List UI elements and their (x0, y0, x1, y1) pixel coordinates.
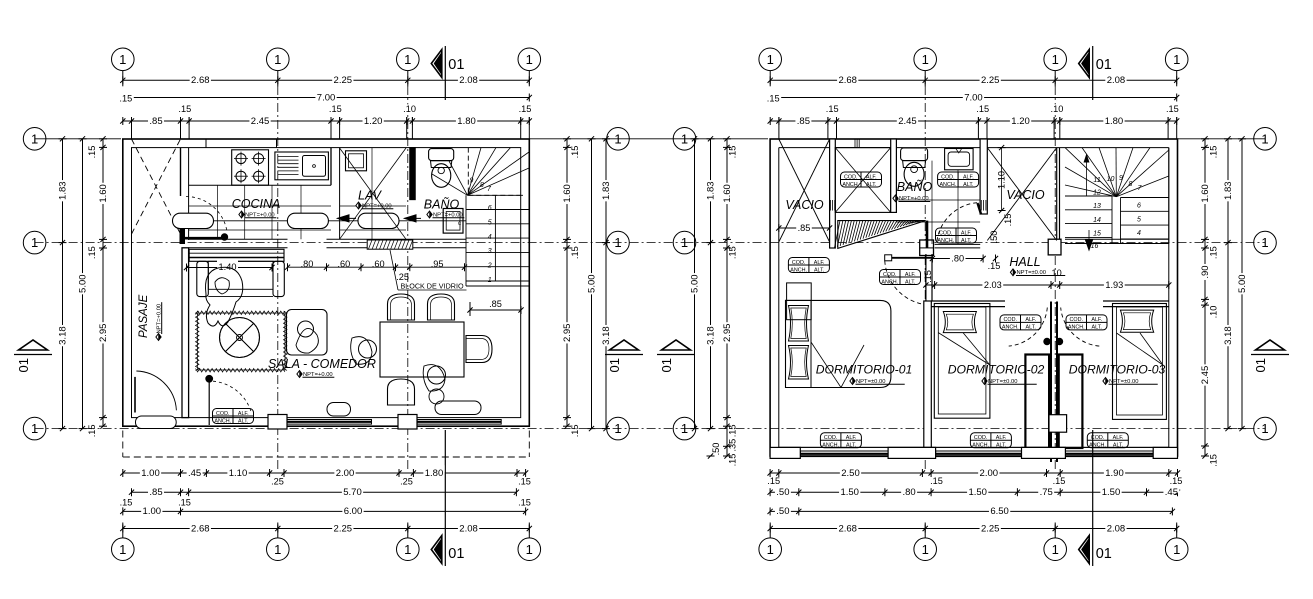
bottom dim chain 1.00/6.00 left plan (123, 510, 526, 512)
lav washer left plan (346, 151, 367, 171)
svg-text:HALL: HALL (1009, 255, 1040, 269)
svg-text:.50: .50 (776, 487, 789, 498)
svg-text:1.83: 1.83 (57, 181, 68, 200)
toilet right plan (901, 148, 928, 161)
bench bottom right left plan (435, 401, 481, 415)
bottom wall window sala 1 left plan (286, 420, 372, 425)
svg-text:COD.: COD. (844, 174, 857, 180)
stair left edge dashed left plan (467, 148, 469, 196)
west dimension 5.00 right plan (694, 139, 696, 429)
svg-text:ALF.: ALF. (963, 174, 974, 180)
top dimension row 2.68/2.25/2.08 right plan (770, 79, 1176, 81)
svg-text:1: 1 (488, 277, 492, 284)
svg-text:.50: .50 (989, 231, 999, 244)
svg-text:1.90: 1.90 (1105, 468, 1124, 479)
grid marker circles top left plan (112, 48, 135, 71)
grid column centerlines right plan (924, 86, 926, 470)
svg-text:.25: .25 (396, 272, 409, 282)
outer walls left plan (123, 139, 530, 426)
svg-text:COD.: COD. (941, 174, 954, 180)
svg-text:.15: .15 (767, 94, 780, 104)
svg-text:.85: .85 (149, 487, 162, 498)
dim .80 banio door right plan (932, 258, 983, 260)
east dimension 1.83/3.18 left plan (605, 139, 607, 429)
dorm03 door arc right plan (1056, 338, 1062, 344)
svg-text:3.18: 3.18 (57, 326, 68, 345)
svg-text:1: 1 (614, 235, 621, 250)
svg-text:1: 1 (119, 52, 126, 67)
svg-text:VACIO: VACIO (785, 198, 823, 212)
svg-text:1.10: 1.10 (229, 468, 248, 479)
flow arrow lav left plan (338, 215, 350, 222)
svg-text:1: 1 (1052, 52, 1059, 67)
cod-alf banio door right plan (936, 228, 977, 243)
svg-text:2.68: 2.68 (838, 523, 857, 534)
svg-text:.45: .45 (1165, 487, 1178, 498)
svg-text:6.50: 6.50 (990, 506, 1009, 517)
side grid circles right plan west (673, 128, 696, 151)
svg-text:.35: .35 (728, 439, 738, 452)
svg-text:1: 1 (681, 131, 688, 146)
kitchen sink left plan (275, 152, 329, 180)
rug left plan (198, 313, 286, 370)
svg-text:ANCH.: ANCH. (842, 182, 859, 188)
wall lav-banio left plan (410, 148, 415, 200)
cod-alf dorm02 door right plan (1000, 315, 1041, 330)
vacio 1 X right plan (779, 139, 830, 242)
svg-text:1.60: 1.60 (722, 184, 733, 203)
lav diagonal 2 left plan (340, 148, 406, 239)
svg-text:.15: .15 (518, 477, 531, 487)
svg-text:BAÑO: BAÑO (424, 198, 460, 212)
wall vacio1-closet right plan (830, 139, 836, 248)
svg-text:.15: .15 (1003, 214, 1013, 227)
svg-text:1: 1 (1261, 421, 1268, 436)
svg-text:3: 3 (488, 248, 492, 255)
svg-text:8: 8 (480, 182, 484, 189)
door header capsule 2 left plan (287, 213, 328, 228)
vacio 2 X right plan (987, 148, 1056, 241)
svg-text:.25: .25 (271, 477, 284, 487)
west dimension 1.83/3.18 left plan (62, 139, 64, 429)
svg-text:.15: .15 (728, 146, 738, 159)
svg-text:.50: .50 (776, 506, 789, 517)
svg-text:1: 1 (404, 542, 411, 557)
svg-text:ALF.: ALF. (1025, 317, 1036, 323)
svg-text:COD.: COD. (824, 435, 837, 441)
svg-text:1.00: 1.00 (143, 506, 162, 517)
stair treads right plan (1065, 195, 1112, 197)
window pier left 1 (268, 415, 287, 430)
east dimension chain right plan (1204, 139, 1206, 456)
svg-text:.90: .90 (1200, 265, 1211, 278)
wall pier kitchen door left plan (180, 230, 185, 244)
svg-text:ALF.: ALF. (961, 230, 972, 236)
outer walls right plan (770, 139, 1177, 456)
svg-text:2.68: 2.68 (191, 75, 210, 86)
bottom dim chain .50-1.50 right plan (770, 491, 1177, 493)
svg-text:.15: .15 (519, 104, 532, 114)
dining chairs left plan (388, 294, 415, 320)
svg-text:.80: .80 (301, 259, 314, 269)
svg-text:ALF.: ALF. (1113, 435, 1124, 441)
svg-text:5.00: 5.00 (586, 274, 597, 293)
section cut marker 01 bottom right plan (1079, 536, 1090, 564)
window pier left 2 (398, 415, 417, 430)
svg-text:.15: .15 (178, 104, 191, 114)
svg-text:.15: .15 (930, 476, 943, 486)
svg-text:.85: .85 (149, 116, 162, 127)
svg-text:2.00: 2.00 (336, 468, 355, 479)
svg-text:01: 01 (1096, 546, 1112, 562)
svg-text:1: 1 (31, 235, 38, 250)
svg-text:.10: .10 (403, 104, 416, 114)
grid row line A right plan (685, 138, 769, 140)
banio door arc right plan (937, 203, 977, 243)
svg-text:01: 01 (1253, 358, 1268, 372)
closet dorm02 right plan (1025, 355, 1049, 449)
svg-text:COD.: COD. (939, 230, 952, 236)
grid row line D right plan (685, 428, 1266, 430)
svg-text:6: 6 (1137, 203, 1141, 210)
svg-text:COD.: COD. (1091, 435, 1104, 441)
hall dim 2.03/1.93 right plan (926, 284, 1169, 286)
svg-text:.15: .15 (1209, 246, 1219, 259)
svg-text:1: 1 (119, 542, 126, 557)
svg-text:1: 1 (1261, 235, 1268, 250)
closet dorm03 right plan (1059, 355, 1083, 449)
cod-alf bedrooms bottom right plan (820, 433, 861, 448)
section arrow 01 west right plan (662, 340, 691, 350)
svg-text:1: 1 (31, 421, 38, 436)
stair bottom landing left plan (466, 285, 529, 287)
svg-text:5: 5 (488, 220, 492, 227)
round chair with fan left plan (220, 318, 260, 358)
dorm03 top wall right plan (1103, 300, 1169, 302)
stair treads left plan (466, 209, 529, 211)
svg-text:1: 1 (767, 542, 774, 557)
svg-text:1.60: 1.60 (98, 184, 109, 203)
svg-text:.75: .75 (1040, 487, 1053, 498)
svg-text:1.50: 1.50 (968, 487, 987, 498)
svg-text:1: 1 (404, 52, 411, 67)
bottom wall window sala 2 left plan (417, 420, 501, 425)
grid row line A left plan (35, 138, 121, 140)
section cut marker 01 top left plan (431, 50, 442, 78)
sala door pivot left plan (206, 375, 213, 382)
svg-text:1.20: 1.20 (1011, 116, 1030, 127)
svg-text:6: 6 (488, 205, 492, 212)
east dimension chain left plan (566, 139, 568, 426)
svg-text:.25: .25 (400, 477, 413, 487)
appliance line left plan (181, 220, 467, 222)
bed dorm-01 right plan (787, 283, 812, 320)
svg-text:1: 1 (526, 52, 533, 67)
mid wall + hall piers right plan (920, 240, 934, 256)
stair down arrow right plan (1088, 230, 1090, 250)
svg-text:.15: .15 (988, 261, 1001, 271)
stair fan lines left plan (468, 148, 482, 196)
wall stub dorm01-02 right plan (925, 254, 927, 301)
wall cocina-lav left plan (330, 148, 332, 186)
top dimension chain .85/2.45/1.20/1.80 right plan (770, 120, 1176, 122)
svg-text:.10: .10 (1051, 104, 1064, 114)
cod-alf dorm01 door right plan (880, 270, 921, 285)
svg-text:1.80: 1.80 (457, 116, 476, 127)
svg-text:.15: .15 (1209, 454, 1219, 467)
svg-text:.15: .15 (1053, 476, 1066, 486)
svg-text:COD.: COD. (216, 411, 229, 417)
bottom window dorm02 right plan (936, 451, 1022, 457)
svg-text:ANCH.: ANCH. (1002, 325, 1019, 331)
svg-text:1: 1 (31, 131, 38, 146)
svg-text:.10: .10 (1049, 268, 1062, 278)
wall banio-vacio2 right plan (980, 139, 987, 214)
diners left plan (359, 340, 377, 358)
grid row centerline B right plan (685, 242, 1266, 244)
svg-text:ALF.: ALF. (866, 174, 877, 180)
svg-text:1.00: 1.00 (141, 468, 160, 479)
svg-text:7.00: 7.00 (964, 92, 983, 103)
svg-text:VACIO: VACIO (1006, 188, 1044, 202)
svg-text:3.18: 3.18 (705, 326, 716, 345)
svg-text:5.00: 5.00 (689, 274, 700, 293)
svg-text:01: 01 (659, 358, 674, 372)
top wall divider ticks left plan (205, 139, 207, 148)
dining table left plan (380, 322, 464, 377)
stair-hall wall right plan (1065, 238, 1169, 240)
svg-text:.15: .15 (119, 94, 132, 104)
svg-text:COD.: COD. (1070, 317, 1083, 323)
east dimension 5.00 left plan (591, 139, 593, 429)
svg-text:2.08: 2.08 (1107, 75, 1126, 86)
svg-text:.15: .15 (570, 146, 580, 159)
bottom wall band right plan (779, 446, 1169, 448)
sofa width dim 1.40 left plan (187, 267, 273, 269)
svg-text:1.93: 1.93 (1105, 280, 1123, 290)
svg-text:01: 01 (448, 546, 464, 562)
wall closet-banio right plan (891, 139, 897, 212)
west dimension chain .15/1.60/.15/2.95/.15 left plan (102, 139, 104, 426)
svg-text:3.18: 3.18 (601, 326, 612, 345)
section arrow 01 west left plan (19, 340, 48, 350)
svg-text:ALF.: ALF. (846, 435, 857, 441)
svg-text:.15: .15 (120, 498, 133, 508)
svg-text:ALT.: ALT. (238, 418, 248, 424)
svg-text:c: c (458, 221, 461, 227)
section cut marker 01 top right plan (1079, 50, 1090, 78)
dorm02 top wall right plan (931, 300, 1005, 302)
svg-text:2.50: 2.50 (841, 468, 860, 479)
side grid circles right plan east (1254, 128, 1277, 151)
svg-text:2.25: 2.25 (334, 523, 353, 534)
sofa console band left plan (189, 249, 284, 261)
bottom dim chain 2.50/2.00/1.90 right plan (770, 472, 1177, 474)
svg-text:.15: .15 (329, 104, 342, 114)
banio threshold right plan (935, 243, 981, 245)
svg-text:2.95: 2.95 (98, 324, 109, 343)
stair wall right plan (1168, 148, 1170, 244)
svg-text:.45: .45 (188, 468, 201, 479)
closet box right plan (835, 148, 890, 213)
shower box left plan (443, 209, 463, 234)
lav diagonal cross left plan (340, 148, 406, 239)
wall bar above hall pier right plan (926, 221, 929, 248)
svg-text:ALF.: ALF. (1091, 317, 1102, 323)
pasaje hatch X left plan (132, 139, 181, 234)
side grid circles left plan west (23, 128, 46, 151)
svg-text:5.00: 5.00 (77, 274, 88, 293)
svg-text:1: 1 (526, 542, 533, 557)
svg-text:BAÑO: BAÑO (897, 180, 933, 194)
svg-text:1.50: 1.50 (1102, 487, 1121, 498)
top dimension row 2.68/2.25/2.08 left plan (123, 79, 530, 81)
svg-text:.15: .15 (87, 425, 97, 438)
svg-text:01: 01 (607, 358, 622, 372)
door header capsule 1 left plan (173, 213, 214, 228)
svg-text:.15: .15 (87, 146, 97, 159)
svg-text:01: 01 (16, 358, 31, 372)
section arrow 01 east right plan (1256, 340, 1285, 350)
stair fan right plan (1065, 148, 1116, 197)
svg-text:1: 1 (681, 421, 688, 436)
dorm02 door arc right plan (1044, 338, 1050, 344)
svg-text:ALT.: ALT. (814, 267, 824, 273)
svg-text:ALT.: ALT. (905, 279, 915, 285)
bottom dimension row 2.68/2.25/2.08 left plan (123, 528, 530, 530)
svg-text:1: 1 (767, 52, 774, 67)
svg-text:.15: .15 (570, 425, 580, 438)
svg-text:1.50: 1.50 (840, 487, 859, 498)
svg-text:PASAJE: PASAJE (138, 294, 150, 338)
svg-text:10: 10 (1107, 176, 1115, 183)
svg-text:1: 1 (1052, 542, 1059, 557)
grid row line D left plan (35, 428, 685, 430)
grid marker circles top right plan (759, 48, 782, 71)
bed dorm-03 right plan (1113, 304, 1167, 420)
window ticks walls right plan (830, 200, 832, 211)
svg-text:.15: .15 (1209, 146, 1219, 159)
wall vacio2-stair right plan (1056, 148, 1058, 241)
svg-text:16: 16 (1091, 243, 1099, 250)
svg-text:2.68: 2.68 (838, 75, 857, 86)
bottom piers right plan (770, 447, 800, 458)
bottom dim chain .85/5.70 left plan (132, 491, 517, 493)
svg-text:7.00: 7.00 (317, 92, 336, 103)
svg-text:2.25: 2.25 (334, 75, 353, 86)
svg-text:DORMITORIO-03: DORMITORIO-03 (1069, 363, 1166, 377)
svg-text:ANCH.: ANCH. (881, 279, 898, 285)
svg-text:.95: .95 (431, 259, 444, 269)
grid column centerlines left plan (277, 86, 279, 470)
cod-alf banio right plan (938, 172, 979, 187)
svg-text:4: 4 (1137, 230, 1141, 237)
svg-text:1.80: 1.80 (1105, 116, 1124, 127)
svg-text:4: 4 (488, 234, 492, 241)
svg-text:1: 1 (922, 52, 929, 67)
kitchen door leaf + swing left plan (184, 237, 222, 240)
svg-text:9: 9 (1119, 175, 1123, 182)
svg-text:.15: .15 (826, 104, 839, 114)
west dimension 1.83/3.18 right plan (710, 139, 712, 429)
svg-text:2: 2 (487, 263, 492, 270)
bottom dimension row 2.68/2.25/2.08 right plan (770, 528, 1176, 530)
grid marker circles bottom right plan (759, 538, 782, 561)
svg-text:1.60: 1.60 (1200, 184, 1211, 203)
west dimension 5.00 left plan (82, 139, 84, 429)
svg-text:.15: .15 (728, 246, 738, 259)
toilet left plan (429, 149, 454, 161)
svg-text:ANCH.: ANCH. (937, 238, 954, 244)
svg-text:13: 13 (1093, 203, 1101, 210)
svg-text:.15: .15 (728, 454, 738, 467)
svg-text:1.80: 1.80 (425, 468, 444, 479)
svg-text:1: 1 (614, 131, 621, 146)
svg-text:9: 9 (470, 178, 474, 185)
svg-text:.85: .85 (798, 223, 811, 233)
svg-text:01: 01 (1096, 57, 1112, 73)
svg-text:2.08: 2.08 (459, 523, 478, 534)
svg-text:COD.: COD. (792, 260, 805, 266)
svg-text:5: 5 (1137, 216, 1141, 223)
svg-text:1: 1 (274, 542, 281, 557)
svg-text:1.83: 1.83 (1223, 181, 1234, 200)
svg-text:DORMITORIO-02: DORMITORIO-02 (948, 363, 1045, 377)
svg-text:1.83: 1.83 (601, 181, 612, 200)
svg-text:2.08: 2.08 (1107, 523, 1126, 534)
svg-text:2.45: 2.45 (251, 116, 270, 127)
section cut marker 01 bottom left plan (431, 536, 442, 564)
svg-text:COD.: COD. (1004, 317, 1017, 323)
svg-text:ALT.: ALT. (1026, 325, 1036, 331)
svg-text:1: 1 (681, 235, 688, 250)
kitchen counter left plan (189, 184, 331, 186)
svg-text:14: 14 (1093, 217, 1101, 224)
dorm-01 door leaf right plan (885, 257, 932, 259)
interior dim chain .80/.60/.60/.25/.95 left plan (288, 266, 465, 268)
svg-text:ALF.: ALF. (905, 272, 916, 278)
svg-text:5.70: 5.70 (343, 487, 362, 498)
svg-text:.60: .60 (337, 259, 350, 269)
svg-text:.15: .15 (570, 246, 580, 259)
svg-text:.85: .85 (489, 299, 502, 309)
svg-text:2.95: 2.95 (722, 324, 733, 343)
bench bottom left left plan (327, 403, 351, 417)
svg-text:.15: .15 (87, 246, 97, 259)
svg-text:12: 12 (1093, 190, 1101, 197)
east dimension 5.00 right plan (1241, 139, 1243, 429)
svg-text:1: 1 (922, 542, 929, 557)
armchair with person left plan (287, 310, 328, 356)
wall pasaje-cocina left plan (180, 148, 182, 196)
entry sill pasaje left plan (136, 416, 177, 429)
svg-text:ANCH.: ANCH. (1068, 325, 1085, 331)
bottom window dorm03 right plan (1065, 451, 1153, 457)
grid marker circles bottom left plan (112, 538, 135, 561)
svg-text:.15: .15 (976, 104, 989, 114)
svg-text:.80: .80 (951, 253, 964, 263)
wall pasaje-sala left plan (182, 248, 189, 418)
svg-text:1: 1 (614, 421, 621, 436)
bottom window dorm01 right plan (800, 451, 888, 457)
stair flight arrows right plan (1086, 158, 1088, 196)
roof overhang dashed line left plan (123, 456, 530, 458)
top dimension 7.00 right plan (770, 97, 1176, 99)
svg-text:.60: .60 (372, 259, 385, 269)
top dimension chain .85/2.45/1.20/1.80 left plan (123, 120, 530, 122)
svg-text:1: 1 (1173, 52, 1180, 67)
svg-text:ALT.: ALT. (961, 238, 971, 244)
